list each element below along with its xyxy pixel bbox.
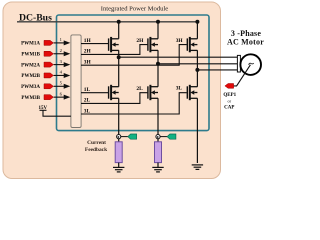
ground (leg 1)	[113, 167, 124, 172]
wire: motor phase 1	[119, 56, 238, 58]
label: Current Feedback	[85, 140, 107, 153]
wire: motor phase 2	[158, 63, 238, 65]
input PWM1B	[21, 51, 70, 57]
svg-text:3H: 3H	[84, 59, 92, 65]
junction: DC bus / leg3	[195, 20, 199, 24]
motor shaft mark	[249, 63, 254, 65]
junction: DC bus / leg1	[117, 20, 121, 24]
svg-text:or: or	[227, 99, 231, 104]
label: 3-Phase AC Motor	[227, 29, 264, 46]
motor terminal block	[237, 55, 240, 72]
svg-text:3H: 3H	[176, 38, 184, 44]
input PWM2B	[21, 73, 70, 79]
svg-text:PWM3A: PWM3A	[21, 85, 40, 90]
current feedback arrow 2	[167, 134, 176, 139]
svg-text:2H: 2H	[84, 49, 92, 55]
gate driver U1	[71, 35, 81, 128]
wire: shunt 1 to ground	[118, 163, 120, 168]
svg-text:PWM1A: PWM1A	[21, 42, 40, 47]
input PWM2A	[21, 62, 70, 68]
transistor Q3L	[187, 85, 197, 100]
wire: phase leg 1 vertical	[118, 22, 120, 135]
input PWM3A	[21, 84, 70, 90]
label: QEP or CAP	[223, 93, 236, 111]
transistor Q1H	[109, 37, 119, 52]
svg-text:Current: Current	[87, 140, 106, 146]
wire: motor phase 3	[197, 69, 237, 71]
wire 1L (driver to Q1L gate)	[81, 87, 108, 93]
wire: sense2 to shunt	[157, 139, 159, 142]
node: phase 1	[117, 55, 121, 59]
resistor R2 (shunt)	[155, 142, 162, 163]
svg-text:Feedback: Feedback	[85, 147, 107, 153]
svg-text:PWM3B: PWM3B	[21, 96, 40, 101]
svg-text:3L: 3L	[84, 108, 91, 114]
output arrow QEP/CAP	[225, 84, 234, 89]
svg-text:PWM1B: PWM1B	[21, 53, 40, 58]
resistor R1 (shunt)	[115, 142, 122, 163]
current feedback arrow 1	[128, 134, 137, 139]
svg-text:2L: 2L	[84, 98, 91, 104]
wire: shunt 2 to ground	[157, 163, 159, 168]
wire: phase leg 2 vertical	[157, 22, 159, 135]
svg-text:2L: 2L	[136, 86, 143, 92]
ground (leg 2)	[152, 167, 163, 172]
wire 3H (driver to Q3H gate)	[81, 38, 187, 65]
wire: 15V to driver	[43, 110, 71, 116]
wire: encoder feedback from motor	[234, 65, 251, 86]
wire 3L (driver to Q3L gate)	[81, 85, 187, 114]
wire 2L (driver to Q2L gate)	[81, 86, 147, 104]
motor M1 (3-phase AC motor)	[240, 54, 261, 75]
value label: 15V supply	[38, 106, 47, 111]
junction: DC bus / leg2	[156, 20, 160, 24]
wire: DC bus rail	[17, 21, 199, 23]
node: phase 2	[156, 62, 160, 66]
background panel	[3, 2, 221, 179]
svg-text:QEP1: QEP1	[223, 93, 236, 98]
input PWM1A	[21, 40, 70, 46]
svg-text:2H: 2H	[136, 38, 144, 44]
svg-text:PWM2B: PWM2B	[21, 74, 40, 79]
svg-text:Integrated Power Module: Integrated Power Module	[101, 6, 168, 13]
svg-text:AC Motor: AC Motor	[227, 37, 264, 46]
wire: phase leg 3 vertical	[196, 22, 198, 163]
svg-text:CAP: CAP	[224, 106, 234, 111]
node: current sense 2	[156, 135, 160, 139]
ground (leg 3)	[192, 165, 203, 170]
svg-text:3L: 3L	[176, 85, 183, 91]
transistor Q2L	[148, 85, 158, 100]
transistor Q1L	[109, 85, 119, 100]
svg-text:PWM2A: PWM2A	[21, 63, 40, 68]
transistor Q3H	[187, 37, 197, 52]
input PWM3B	[21, 95, 70, 101]
node: current sense 1	[117, 135, 121, 139]
svg-text:1L: 1L	[84, 87, 91, 93]
node: phase 3	[195, 68, 199, 72]
svg-text:1H: 1H	[84, 38, 92, 44]
wire 2H (driver to Q2H gate)	[81, 38, 147, 55]
module boundary box (Integrated Power Module)	[57, 15, 210, 131]
wire 1H (driver to Q1H gate)	[81, 38, 108, 44]
transistor Q2H	[148, 37, 158, 52]
wire: sense 2 tap	[160, 136, 167, 138]
wire: sense 1 tap	[121, 136, 128, 138]
wire: sense1 to shunt	[118, 139, 120, 142]
